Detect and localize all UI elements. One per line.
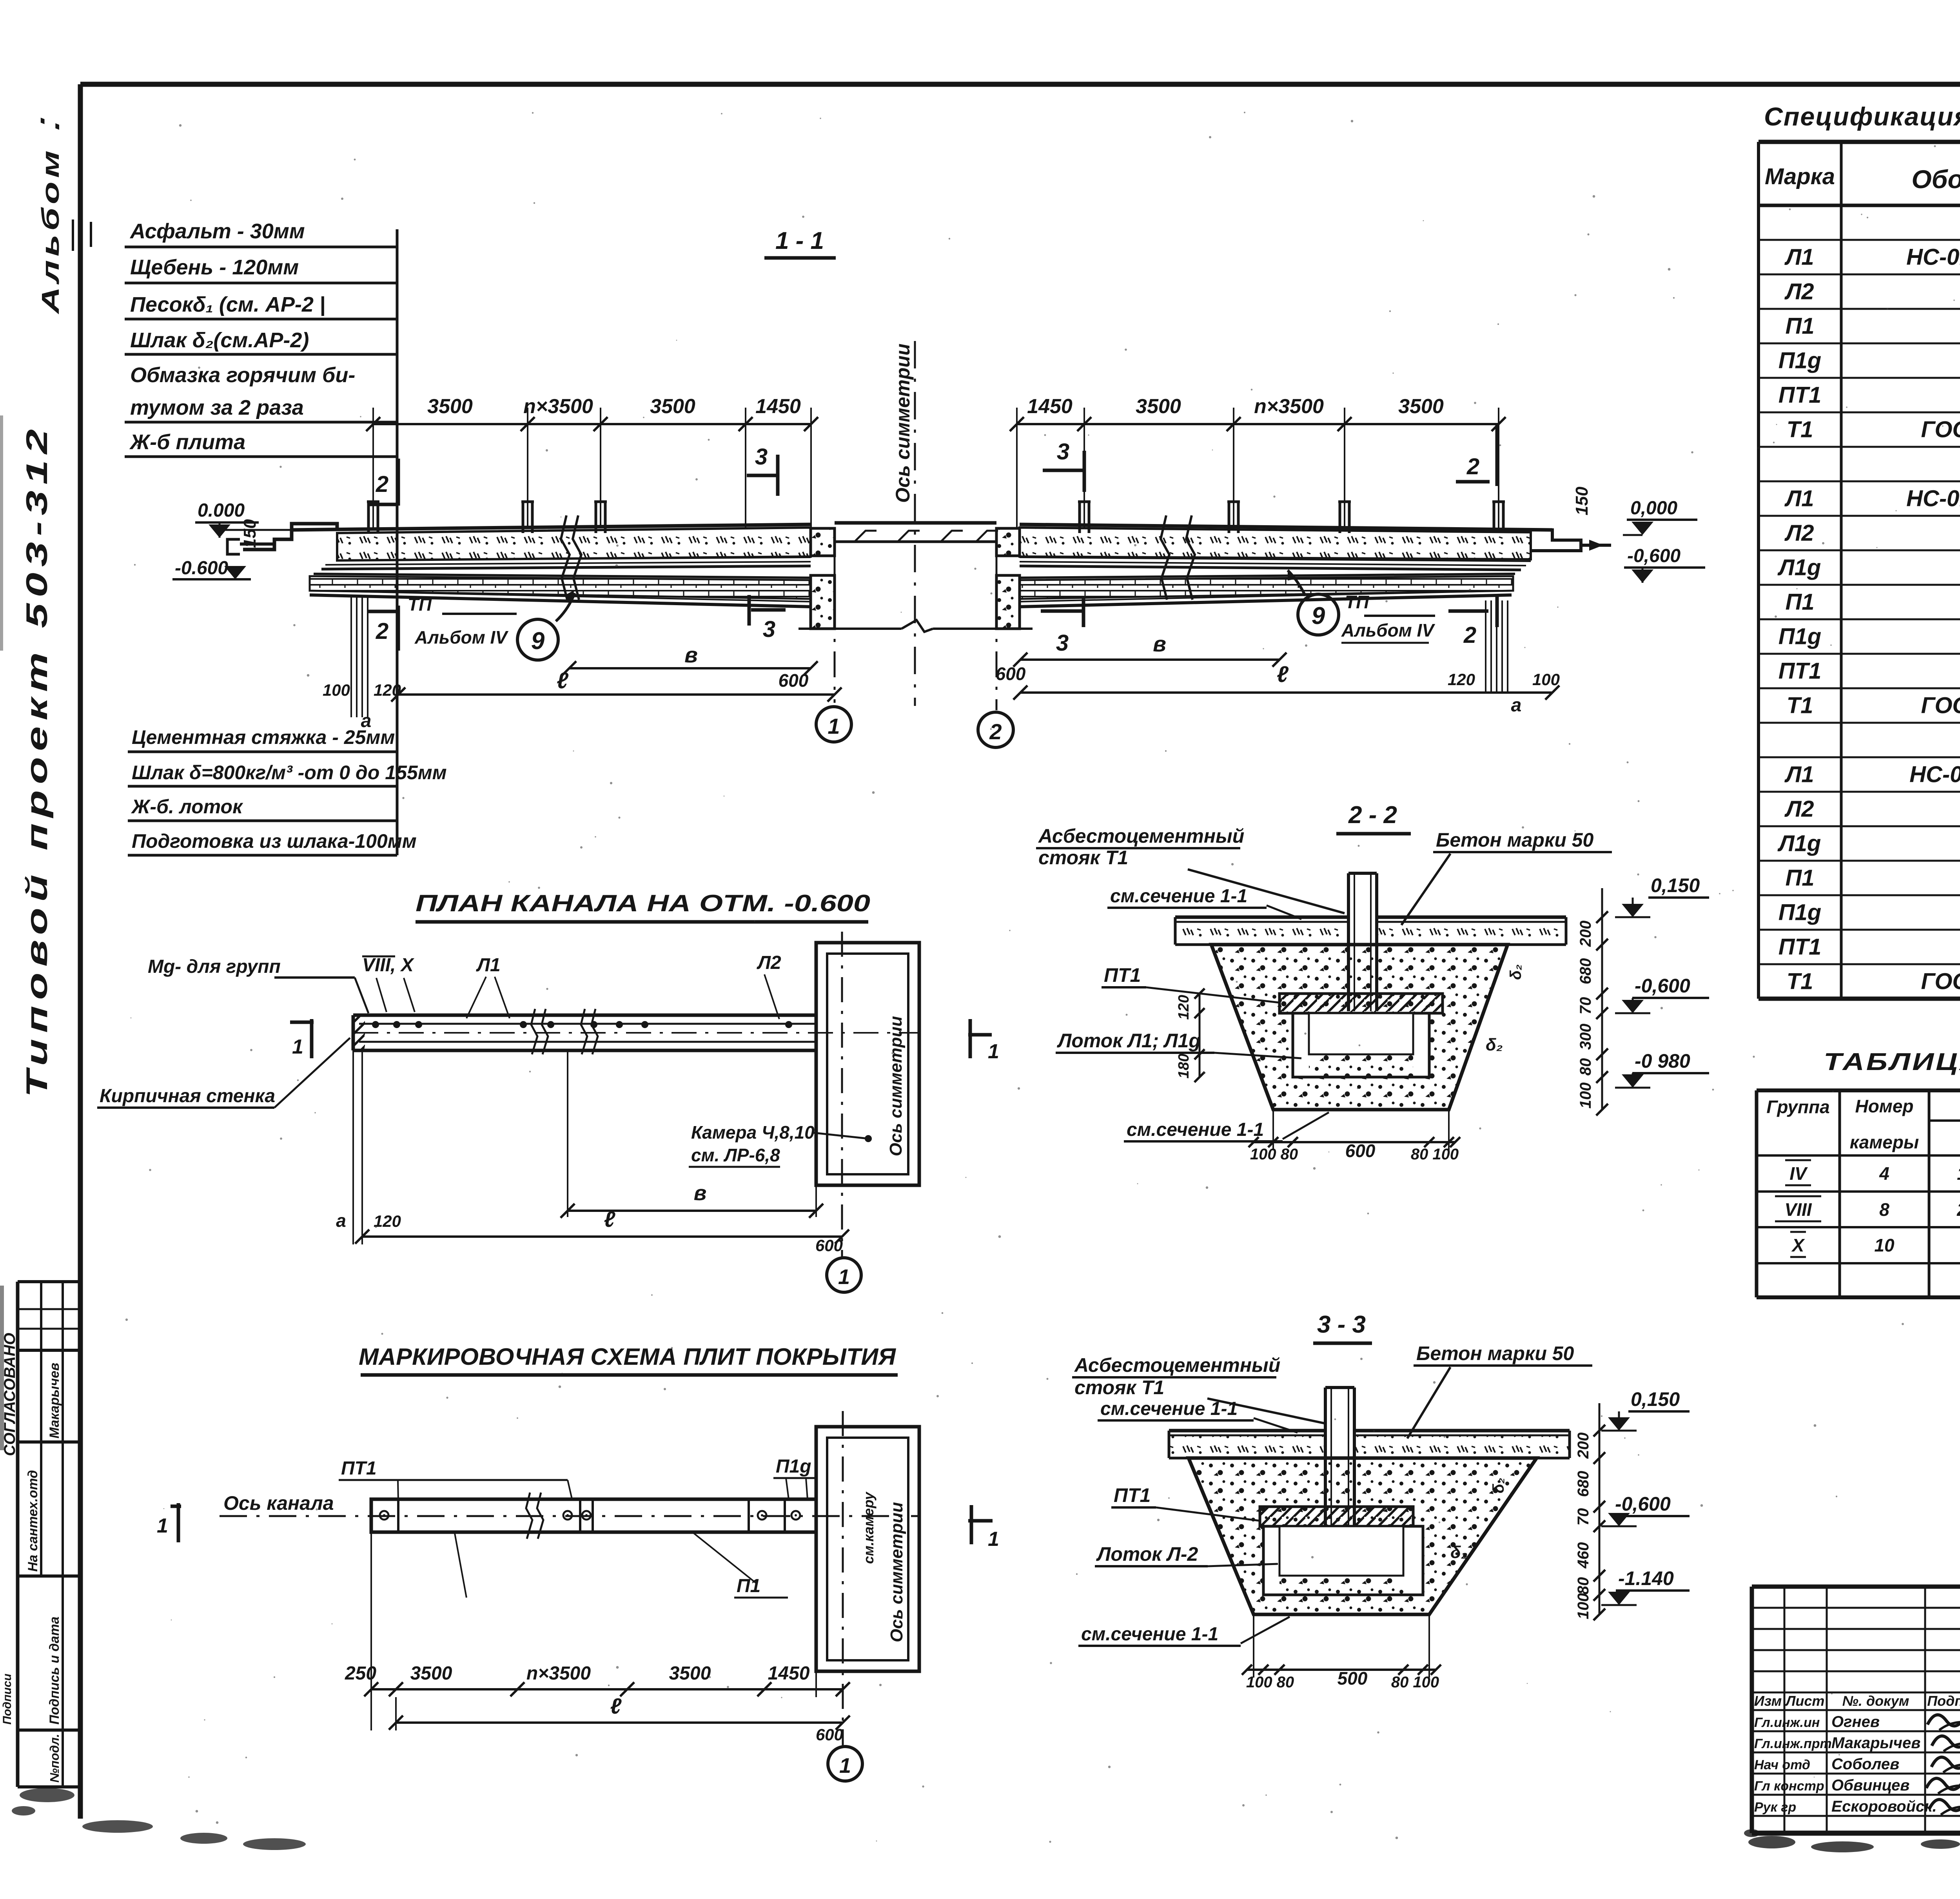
svg-text:Ескоровойск.: Ескоровойск.	[1831, 1798, 1937, 1815]
svg-text:Изм: Изм	[1754, 1693, 1782, 1709]
svg-text:Лоток Л-2: Лоток Л-2	[1096, 1543, 1198, 1565]
svg-text:см.сечение 1-1: см.сечение 1-1	[1081, 1624, 1218, 1645]
svg-text:2 - 2: 2 - 2	[1348, 802, 1397, 829]
svg-text:Лист: Лист	[1785, 1693, 1825, 1709]
svg-text:-0,600: -0,600	[1627, 546, 1681, 566]
svg-text:8: 8	[1879, 1199, 1889, 1220]
svg-text:см.сечение 1-1: см.сечение 1-1	[1110, 886, 1247, 907]
svg-text:1: 1	[838, 1265, 850, 1289]
svg-text:ПТ1: ПТ1	[1114, 1484, 1151, 1506]
svg-text:80 100: 80 100	[1391, 1674, 1439, 1691]
svg-text:Спецификация элементов, распо: Спецификация элементов, расположенных на…	[1764, 102, 1960, 131]
svg-text:Обмазка горячим би-: Обмазка горячим би-	[130, 363, 355, 387]
svg-text:ПЛАН КАНАЛА НА ОТМ. -0.: ПЛАН КАНАЛА НА ОТМ. -0.600	[416, 890, 870, 916]
svg-text:в: в	[694, 1181, 707, 1205]
svg-text:стояк Т1: стояк Т1	[1074, 1377, 1164, 1398]
svg-text:680: 680	[1577, 958, 1594, 985]
svg-text:680: 680	[1575, 1471, 1592, 1497]
svg-text:1: 1	[839, 1754, 851, 1777]
svg-text:n×3500: n×3500	[523, 395, 593, 418]
svg-text:120: 120	[1448, 670, 1475, 689]
svg-text:120: 120	[1176, 995, 1192, 1019]
svg-text:Песокδ₁ (см. АР-2 |: Песокδ₁ (см. АР-2 |	[130, 293, 325, 316]
svg-text:120: 120	[374, 1212, 401, 1230]
svg-text:Марка: Марка	[1765, 164, 1835, 189]
svg-text:3500: 3500	[1398, 395, 1444, 418]
svg-text:Ось симметрии: Ось симметрии	[892, 344, 914, 503]
svg-text:Цементная стяжка - 25мм: Цементная стяжка - 25мм	[132, 726, 395, 748]
svg-text:Подготовка из шлака-100мм: Подготовка из шлака-100мм	[132, 830, 417, 852]
svg-text:100: 100	[1577, 1083, 1594, 1109]
svg-text:80: 80	[1575, 1577, 1592, 1595]
svg-text:Ж-б плита: Ж-б плита	[129, 430, 245, 454]
svg-text:10: 10	[1874, 1235, 1895, 1255]
svg-text:0,150: 0,150	[1651, 874, 1700, 896]
svg-text:а: а	[336, 1210, 346, 1231]
svg-text:2: 2	[1466, 454, 1479, 479]
svg-text:3500: 3500	[1136, 395, 1181, 418]
svg-text:300: 300	[1577, 1024, 1594, 1050]
svg-text:Л2: Л2	[1784, 279, 1814, 304]
svg-text:Альбом ⁚: Альбом ⁚	[37, 118, 64, 315]
svg-text:-0,600: -0,600	[1635, 975, 1690, 997]
svg-text:1: 1	[828, 714, 840, 738]
svg-text:П1: П1	[1786, 313, 1815, 339]
svg-text:камеры: камеры	[1850, 1132, 1919, 1152]
svg-text:Типовой проект 503-312: Типовой проект 503-312	[20, 423, 54, 1097]
svg-text:П1g: П1g	[1779, 624, 1821, 649]
svg-text:Шлак δ=800кг/м³ -от 0 до 155мм: Шлак δ=800кг/м³ -от 0 до 155мм	[132, 762, 447, 784]
svg-text:0,150: 0,150	[1631, 1388, 1680, 1410]
svg-text:Л1: Л1	[1784, 486, 1814, 511]
svg-text:VIII: VIII	[1784, 1199, 1812, 1220]
svg-text:2: 2	[376, 618, 388, 644]
svg-text:Ось симметрии: Ось симметрии	[887, 1502, 906, 1642]
svg-text:см. ЛР-6,8: см. ЛР-6,8	[691, 1145, 780, 1165]
svg-text:Альбом IV: Альбом IV	[1341, 620, 1435, 640]
svg-text:1450: 1450	[768, 1663, 810, 1684]
svg-text:1: 1	[988, 1040, 999, 1063]
svg-text:70: 70	[1575, 1508, 1592, 1526]
svg-text:δ₂: δ₂	[1490, 1478, 1507, 1493]
svg-text:Обозначение: Обозначение	[1911, 165, 1960, 194]
svg-text:ℓ: ℓ	[604, 1207, 616, 1232]
svg-text:ℓ: ℓ	[1277, 662, 1289, 687]
svg-text:Бетон марки 50: Бетон марки 50	[1436, 829, 1594, 851]
svg-text:Подписи: Подписи	[1, 1674, 14, 1725]
svg-text:3500: 3500	[650, 395, 695, 418]
svg-text:70: 70	[1577, 997, 1594, 1015]
svg-text:Гл.инж.ин: Гл.инж.ин	[1754, 1715, 1820, 1730]
svg-text:600: 600	[779, 670, 809, 691]
svg-text:№подл.: №подл.	[47, 1734, 62, 1783]
svg-text:Макарычев: Макарычев	[47, 1363, 62, 1438]
svg-text:Т1: Т1	[1787, 969, 1813, 994]
svg-text:НС-01-04 Вып 2: НС-01-04 Вып 2	[1909, 762, 1960, 787]
svg-text:-0,600: -0,600	[1615, 1493, 1671, 1515]
svg-text:3500: 3500	[410, 1663, 452, 1684]
svg-text:4: 4	[1879, 1163, 1889, 1184]
svg-text:Л1g: Л1g	[1777, 831, 1821, 856]
svg-text:ГОСТ 1839-72: ГОСТ 1839-72	[1921, 693, 1960, 718]
svg-text:Группа: Группа	[1766, 1097, 1829, 1117]
svg-text:П1g: П1g	[1779, 348, 1821, 373]
svg-text:3: 3	[763, 617, 775, 642]
svg-text:Л2: Л2	[1784, 520, 1814, 546]
svg-text:100: 100	[1532, 670, 1560, 689]
svg-text:Нач отд: Нач отд	[1754, 1758, 1810, 1772]
svg-text:Кирпичная стенка: Кирпичная стенка	[100, 1086, 275, 1106]
svg-text:80: 80	[1577, 1058, 1594, 1076]
svg-text:Асфальт - 30мм: Асфальт - 30мм	[129, 219, 305, 243]
svg-text:стояк Т1: стояк Т1	[1038, 847, 1128, 869]
svg-text:200: 200	[1577, 921, 1594, 947]
svg-text:100: 100	[1575, 1593, 1592, 1620]
svg-text:ПТ1: ПТ1	[1104, 964, 1141, 986]
svg-text:ТП: ТП	[1345, 592, 1369, 612]
svg-text:VIII, X: VIII, X	[362, 955, 415, 976]
svg-text:460: 460	[1575, 1542, 1592, 1569]
svg-text:П1g: П1g	[776, 1456, 811, 1477]
svg-text:1450: 1450	[1027, 395, 1073, 418]
svg-text:Гл.инж.прт: Гл.инж.прт	[1754, 1736, 1832, 1751]
svg-text:IV: IV	[1789, 1163, 1808, 1184]
svg-text:δ₂: δ₂	[1507, 964, 1524, 980]
svg-text:Бетон марки 50: Бетон марки 50	[1416, 1342, 1574, 1364]
svg-text:см.камеру: см.камеру	[860, 1491, 877, 1564]
svg-text:Подпись и дата: Подпись и дата	[47, 1616, 62, 1725]
svg-text:НС-01-04 Вып. 2: НС-01-04 Вып. 2	[1906, 486, 1960, 511]
svg-text:-1.140: -1.140	[1618, 1567, 1674, 1589]
svg-text:тумом за 2 раза: тумом за 2 раза	[130, 396, 304, 419]
svg-text:НС-01-04 Вып. 2: НС-01-04 Вып. 2	[1906, 244, 1960, 270]
svg-text:Л1: Л1	[476, 955, 501, 976]
svg-text:Асбестоцементный: Асбестоцементный	[1038, 825, 1244, 847]
svg-text:Л2: Л2	[1784, 796, 1814, 822]
svg-text:600: 600	[816, 1725, 843, 1744]
svg-text:2: 2	[376, 472, 388, 497]
svg-text:Подпись: Подпись	[1927, 1693, 1960, 1709]
svg-text:3 - 3: 3 - 3	[1317, 1311, 1366, 1338]
svg-text:Ж-б. лоток: Ж-б. лоток	[131, 796, 243, 818]
svg-text:9: 9	[531, 628, 545, 655]
svg-text:П1: П1	[1786, 589, 1815, 615]
svg-text:Л1: Л1	[1784, 244, 1814, 270]
svg-text:-0.600: -0.600	[175, 558, 228, 579]
svg-text:3500: 3500	[669, 1663, 711, 1684]
svg-text:ПТ1: ПТ1	[1779, 934, 1821, 959]
svg-text:Камера Ч,8,10: Камера Ч,8,10	[691, 1122, 815, 1143]
svg-text:На сантех.отд: На сантех.отд	[25, 1470, 40, 1572]
svg-text:3: 3	[1057, 439, 1069, 464]
svg-text:в: в	[1153, 631, 1166, 656]
svg-text:δ₂: δ₂	[1486, 1035, 1503, 1054]
svg-text:150: 150	[240, 519, 260, 548]
svg-text:ℓ: ℓ	[557, 668, 569, 693]
svg-text:1: 1	[157, 1514, 168, 1537]
svg-text:Шлак δ₂(см.АР-2): Шлак δ₂(см.АР-2)	[130, 328, 309, 352]
svg-text:0,000: 0,000	[1630, 498, 1677, 519]
svg-text:Номер: Номер	[1855, 1096, 1913, 1116]
svg-text:Альбом IV: Альбом IV	[414, 627, 508, 648]
svg-text:МАРКИРОВОЧНАЯ СХЕМА ПЛИТ ПО: МАРКИРОВОЧНАЯ СХЕМА ПЛИТ ПОКРЫТИЯ	[359, 1344, 896, 1370]
svg-text:П1g: П1g	[1779, 900, 1821, 925]
svg-text:Л2: Л2	[757, 952, 781, 973]
svg-text:Ось симметрии: Ось симметрии	[886, 1016, 906, 1156]
svg-text:1: 1	[988, 1528, 999, 1551]
svg-text:Огнев: Огнев	[1831, 1713, 1880, 1730]
svg-text:Макарычев: Макарычев	[1831, 1734, 1920, 1752]
svg-text:ТАБЛИЦА РАЗМЕРОВ: ТАБЛИЦА РАЗМЕРОВ	[1824, 1048, 1960, 1076]
svg-text:0.000: 0.000	[198, 500, 245, 521]
svg-text:120: 120	[374, 681, 401, 699]
svg-text:Асбестоцементный: Асбестоцементный	[1074, 1354, 1280, 1376]
svg-text:Обвинцев: Обвинцев	[1831, 1777, 1909, 1794]
svg-text:ТП: ТП	[408, 594, 432, 615]
svg-text:2: 2	[989, 719, 1002, 744]
svg-text:600: 600	[996, 664, 1026, 684]
svg-text:ГОСТ 1839-72: ГОСТ 1839-72	[1921, 417, 1960, 442]
svg-text:3: 3	[755, 444, 768, 470]
svg-text:П1: П1	[1786, 865, 1815, 891]
svg-text:Лоток Л1; Л1g: Лоток Л1; Л1g	[1057, 1030, 1201, 1052]
svg-text:100: 100	[323, 681, 350, 699]
svg-text:Т1: Т1	[1787, 693, 1813, 718]
svg-text:Л1: Л1	[1784, 762, 1814, 787]
svg-text:9: 9	[1312, 602, 1325, 629]
svg-text:-0 980: -0 980	[1635, 1050, 1690, 1072]
svg-text:Л1g: Л1g	[1777, 555, 1821, 580]
svg-text:180: 180	[1176, 1054, 1192, 1078]
svg-text:2: 2	[1463, 622, 1476, 648]
svg-text:150: 150	[1572, 486, 1592, 515]
svg-text:180: 180	[1957, 1163, 1960, 1184]
svg-text:ℓ: ℓ	[610, 1694, 622, 1718]
svg-text:3500: 3500	[427, 395, 473, 418]
svg-text:Ось канала: Ось канала	[223, 1492, 334, 1514]
svg-text:δ₂: δ₂	[1450, 1543, 1468, 1562]
svg-text:ПТ1: ПТ1	[1779, 658, 1821, 684]
svg-text:280: 280	[1956, 1199, 1960, 1220]
svg-text:а: а	[361, 711, 372, 731]
svg-text:Мg- для групп: Мg- для групп	[148, 956, 281, 977]
svg-text:Гл констр: Гл констр	[1754, 1779, 1824, 1794]
svg-text:а: а	[1511, 695, 1522, 716]
svg-text:Соболев: Соболев	[1831, 1756, 1899, 1773]
svg-text:Рук гр: Рук гр	[1754, 1800, 1796, 1815]
svg-text:600: 600	[815, 1236, 843, 1255]
svg-text:1 - 1: 1 - 1	[775, 227, 824, 254]
svg-text:80 100: 80 100	[1411, 1146, 1459, 1163]
svg-text:см.сечение 1-1: см.сечение 1-1	[1127, 1119, 1264, 1140]
svg-text:П1: П1	[737, 1576, 760, 1596]
svg-text:№. докум: №. докум	[1842, 1693, 1909, 1709]
svg-text:3: 3	[1056, 630, 1069, 656]
svg-text:ПТ1: ПТ1	[1779, 382, 1821, 408]
svg-text:600: 600	[1345, 1141, 1376, 1161]
svg-text:Т1: Т1	[1787, 417, 1813, 442]
svg-text:1450: 1450	[755, 395, 801, 418]
svg-text:ГОСТ 1839-72: ГОСТ 1839-72	[1921, 969, 1960, 994]
svg-text:n×3500: n×3500	[526, 1663, 591, 1684]
svg-text:ПТ1: ПТ1	[341, 1458, 377, 1479]
svg-text:n×3500: n×3500	[1254, 395, 1324, 418]
svg-text:X: X	[1791, 1235, 1805, 1255]
svg-text:Щебень - 120мм: Щебень - 120мм	[130, 256, 299, 279]
svg-text:500: 500	[1338, 1668, 1368, 1689]
svg-text:200: 200	[1575, 1433, 1592, 1459]
svg-text:в: в	[684, 642, 698, 667]
svg-text:1: 1	[292, 1036, 303, 1058]
